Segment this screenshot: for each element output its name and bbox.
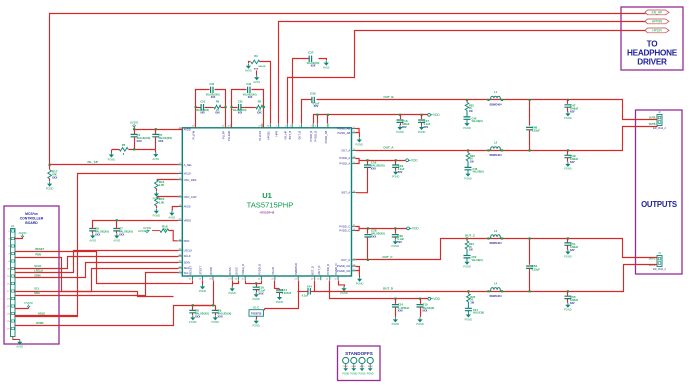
node C19 top: [395, 159, 397, 161]
wire PVDD_AB rail: [314, 115, 428, 124]
svg-text:BST_B: BST_B: [288, 131, 292, 140]
resistor R25 snubber: [467, 291, 469, 294]
svg-text:XXX: XXX: [371, 235, 376, 239]
pin 29 STEST (bottom): [202, 276, 204, 280]
svg-text:PGND: PGND: [416, 322, 424, 326]
pin 2 VR_HP (top): [286, 124, 288, 128]
node A_SEL: [49, 164, 51, 166]
connector J2 top outputs: [653, 110, 666, 130]
svg-text:PWRPAD: PWRPAD: [294, 263, 298, 275]
wire PGND_CD pins to ground: [356, 267, 360, 278]
svg-text:50V: 50V: [397, 240, 402, 244]
ground R17: [46, 181, 54, 190]
thermal pad U1C: [265, 281, 299, 311]
pin 20 PGND_CD (right): [352, 265, 356, 267]
svg-text:AVSS: AVSS: [89, 238, 96, 242]
svg-text:OUT_D: OUT_D: [317, 266, 321, 275]
ground C10: [252, 292, 260, 301]
wire HPSEL pullup: [260, 62, 271, 124]
svg-text:C32: C32: [246, 82, 251, 86]
MCU controller board block: [4, 206, 59, 344]
svg-text:VDD: VDD: [433, 113, 440, 117]
resistor R24 snubber: [466, 239, 468, 242]
capacitor C17 bulk: [421, 115, 423, 120]
svg-text:AVSS: AVSS: [16, 345, 23, 349]
svg-text:PGND: PGND: [199, 289, 207, 293]
MCU header connector J1: [11, 229, 16, 337]
wire AVDD filter bottom: [112, 150, 156, 153]
ground MCU: [16, 340, 23, 349]
svg-text:HPRIN: HPRIN: [652, 20, 663, 24]
pin 19 OUT_C (right): [352, 259, 356, 261]
ground R15: [153, 209, 161, 218]
pin 32 SDA (left): [178, 267, 182, 269]
svg-text:DVSS: DVSS: [234, 267, 238, 275]
wire U1C gnd: [256, 317, 258, 319]
svg-text:VALUE: VALUE: [258, 65, 266, 68]
pin 50 OUT_D (bottom): [320, 276, 322, 280]
ground C17: [418, 125, 426, 134]
svg-text:RESET: RESET: [35, 247, 44, 251]
wire HDLE: [15, 315, 78, 317]
pin 36 PDN (left): [178, 240, 182, 242]
capacitor C9: [215, 306, 217, 311]
ground snubber R25: [465, 312, 473, 321]
ground AVSS pin: [169, 211, 176, 220]
pin 22 PWRPAD (bottom): [297, 276, 299, 280]
svg-text:OSC_RES: OSC_RES: [184, 178, 197, 182]
svg-text:XXX: XXX: [371, 167, 376, 171]
svg-text:PGND: PGND: [189, 320, 197, 324]
node L4 left: [487, 290, 489, 292]
wire DVDD long: [15, 306, 216, 326]
node snubber: [467, 149, 469, 151]
wire AVDD rail left: [135, 127, 183, 129]
svg-text:PGND_CD: PGND_CD: [337, 264, 350, 268]
wire FIL_AP / A_SEL: [50, 164, 179, 166]
svg-text:XXX: XXX: [95, 233, 100, 237]
capacitor C29 decoupling: [395, 229, 397, 234]
wire PVDD feed: [330, 281, 428, 299]
svg-text:PLLFP: PLLFP: [222, 131, 226, 139]
node L1 left: [487, 99, 489, 101]
pin 3 BST_B (top): [291, 124, 293, 128]
svg-text:63V: 63V: [570, 248, 575, 252]
standoff MH3: [359, 357, 365, 363]
svg-text:PGND: PGND: [564, 308, 572, 312]
resistor R22 snubber: [466, 100, 468, 103]
resistor R8: [256, 105, 263, 109]
ground PGND_AB: [356, 137, 364, 146]
svg-text:47K: 47K: [162, 228, 167, 232]
svg-text:PDN: PDN: [35, 253, 41, 257]
pin 40 OSC_RES (left): [178, 179, 182, 181]
svg-text:HPLIN: HPLIN: [652, 29, 662, 33]
svg-text:RESET: RESET: [188, 265, 192, 274]
svg-text:SDWG404: SDWG404: [490, 154, 503, 157]
node L3 left: [487, 237, 489, 239]
svg-text:XXX: XXX: [200, 113, 205, 115]
svg-text:PVDD_D: PVDD_D: [257, 264, 261, 275]
resistor R15: [157, 196, 179, 198]
svg-text:0.1uF: 0.1uF: [302, 295, 309, 298]
svg-text:OUTPUTS: OUTPUTS: [641, 200, 677, 209]
resistor R23 snubber: [467, 150, 469, 153]
ground C11: [276, 295, 284, 304]
svg-text:OUT_A: OUT_A: [383, 146, 394, 150]
svg-text:MCLK: MCLK: [184, 172, 192, 176]
pin 46 PLLFM2 (top): [230, 124, 232, 128]
svg-text:AVDD: AVDD: [18, 231, 27, 235]
wire PDN net: [15, 258, 174, 297]
svg-text:XXX: XXX: [137, 139, 142, 143]
svg-text:63V: 63V: [570, 110, 575, 114]
svg-text:ED_1614_2: ED_1614_2: [653, 127, 666, 130]
svg-text:U1 C: U1 C: [253, 305, 259, 309]
svg-text:LRCLK: LRCLK: [34, 268, 43, 272]
svg-text:PGND: PGND: [418, 130, 426, 134]
pin 11 PGND_AB (right): [352, 128, 356, 130]
net flag HPLIN: [645, 28, 669, 33]
pin 4 OUT_B (top): [300, 124, 302, 128]
wire PGND_AB pins to ground: [356, 129, 360, 138]
node snubber: [466, 237, 468, 239]
node PLL mid left: [195, 106, 197, 108]
capacitor C47 to ground on row1: [567, 99, 569, 101]
ground snubber R23: [464, 171, 472, 180]
svg-text:XXX: XXX: [52, 176, 57, 180]
pin 37 VREG (left): [178, 219, 182, 221]
pin 12 PGND_AB (right): [352, 132, 356, 134]
ground cluster: [253, 75, 260, 84]
pin 48 HPSEL (top): [269, 124, 271, 128]
svg-text:PVDD_A: PVDD_A: [339, 156, 350, 160]
svg-text:PGND: PGND: [392, 175, 400, 179]
wire PVDD_C rail: [356, 227, 407, 231]
wire SCL: [15, 269, 179, 292]
svg-text:HTSSOP-48: HTSSOP-48: [260, 211, 275, 215]
svg-text:TO: TO: [647, 40, 659, 49]
wire PGND_D pin: [339, 281, 345, 287]
svg-text:C33: C33: [238, 100, 243, 104]
ground U1C: [252, 319, 260, 328]
wire OUT_C row: [356, 239, 658, 260]
svg-text:DVDD: DVDD: [36, 321, 43, 325]
power AVDD flag + resistor R16 to PDN: [143, 226, 152, 232]
svg-text:DVDD: DVDD: [209, 267, 213, 275]
capacitor C44 (series bst): [308, 288, 310, 294]
svg-text:AVSS: AVSS: [323, 65, 330, 69]
node C28 top: [367, 227, 369, 229]
svg-text:PGND: PGND: [392, 244, 400, 248]
ground at MCU connector bottom: [13, 337, 20, 340]
svg-text:50V: 50V: [314, 104, 319, 108]
pin 39 OSC_CAP (left): [178, 196, 182, 198]
svg-text:PGND: PGND: [350, 373, 357, 376]
svg-text:AVSS: AVSS: [245, 69, 252, 73]
svg-text:SCLK: SCLK: [184, 254, 191, 258]
ground C6: [89, 233, 96, 242]
wire MCLK route: [15, 174, 179, 317]
capacitor C48 between row1/row2: [529, 100, 531, 126]
wire SDIN: [15, 263, 179, 278]
svg-text:AVDD: AVDD: [184, 127, 191, 131]
pin 14 PVDD_A (right): [352, 157, 356, 159]
pin 27 DVSS (bottom): [231, 276, 233, 280]
capacitor C14 bulk: [395, 299, 397, 304]
node snubber: [466, 99, 468, 101]
node snubber: [467, 290, 469, 292]
svg-text:PGND: PGND: [356, 282, 364, 286]
svg-text:63V: 63V: [570, 301, 575, 305]
svg-text:XXX: XXX: [398, 309, 403, 313]
capacitor C30 series: [211, 87, 213, 93]
svg-text:AVSS: AVSS: [184, 205, 191, 209]
wire PVDD_A rail: [356, 159, 406, 165]
svg-text:VR_HP: VR_HP: [283, 131, 287, 140]
svg-text:VREG: VREG: [184, 218, 192, 222]
svg-text:DVSS: DVSS: [228, 267, 232, 275]
pin 43 AVDD (left): [178, 128, 182, 130]
svg-text:XXX: XXX: [215, 113, 220, 115]
ground C51: [564, 249, 572, 258]
wire PLL filter loop C32: [232, 90, 264, 128]
svg-text:SCL: SCL: [34, 287, 40, 291]
ground R14: [153, 191, 161, 200]
svg-text:PVDD_C: PVDD_C: [339, 229, 350, 233]
svg-text:VALID: VALID: [271, 267, 275, 275]
wire OUT_A row: [356, 127, 658, 151]
svg-text:OSC_CAP: OSC_CAP: [184, 195, 197, 199]
wire VALID cap: [275, 281, 280, 290]
svg-text:HPR: HPR: [275, 131, 279, 137]
svg-text:XXX: XXX: [119, 233, 124, 237]
ground DVSS: [228, 286, 236, 295]
resistor R6: [214, 105, 221, 109]
capacitor C30 (series): [312, 97, 314, 103]
node C18 top: [366, 159, 368, 161]
pin 42 A_SEL (left): [178, 164, 182, 166]
svg-text:PLLFP2: PLLFP2: [258, 130, 262, 140]
net flag HPRIN: [645, 19, 669, 24]
wire VR_HP cap: [293, 59, 327, 124]
svg-text:PGND: PGND: [463, 126, 471, 130]
svg-text:XXX: XXX: [218, 315, 223, 319]
node PLL mid left: [230, 106, 232, 108]
svg-text:OUT_C: OUT_C: [341, 258, 350, 262]
svg-text:OUTB: OUTB: [649, 123, 656, 126]
svg-text:BST_D: BST_D: [311, 266, 315, 275]
svg-text:AVSS: AVSS: [253, 80, 260, 84]
pin 28 DVDD (bottom): [212, 276, 214, 280]
svg-text:VALUE(X): VALUE(X): [472, 259, 483, 262]
node C8 top: [192, 304, 194, 306]
capacitor C33: [239, 104, 241, 110]
node L2 left: [487, 149, 489, 151]
svg-text:PLLFM2: PLLFM2: [227, 130, 231, 141]
inductor L1: [491, 96, 501, 100]
svg-text:XXX: XXX: [311, 65, 316, 68]
wire VREG_D caps: [246, 281, 262, 284]
TO HEADPHONE DRIVER block: [621, 7, 683, 70]
wire AVSS pin to ground: [172, 207, 178, 211]
pin 15 PVDD_A (right): [352, 163, 356, 165]
pin 17 PVDD_C (right): [352, 225, 356, 227]
wire VREG caps: [93, 221, 179, 227]
svg-text:DRIVER: DRIVER: [637, 58, 667, 67]
pin 26 DVSS (bottom): [237, 276, 239, 280]
svg-text:FIL_AP: FIL_AP: [88, 160, 98, 164]
svg-text:0.047uF: 0.047uF: [282, 291, 292, 295]
svg-text:50V: 50V: [424, 125, 429, 129]
capacitor C31: [201, 104, 203, 110]
svg-text:XXX: XXX: [238, 113, 243, 115]
svg-text:PGND: PGND: [465, 317, 473, 321]
ground AVDD filter: [108, 152, 116, 161]
inductor L2: [491, 147, 501, 151]
svg-text:PVDD_D: PVDD_D: [326, 264, 330, 275]
svg-text:SDWG404: SDWG404: [490, 242, 503, 245]
resistor R5: [119, 148, 128, 152]
svg-text:PGND: PGND: [396, 130, 404, 134]
ground C29: [392, 239, 400, 248]
svg-text:C30: C30: [310, 92, 316, 96]
capacitor C4: [134, 130, 136, 135]
svg-text:C37: C37: [308, 50, 314, 54]
capacitor C8: [192, 306, 194, 311]
svg-text:R6: R6: [216, 100, 220, 104]
power AVDD arrow: [130, 121, 139, 127]
ground PGND_CD: [356, 277, 364, 286]
pin 24 PVDD_D (bottom): [260, 276, 262, 280]
wire HPRIN run: [279, 22, 646, 124]
wire BST_A pin to C18: [355, 192, 357, 194]
pin 13 OUT_A (right): [352, 149, 356, 151]
node diff cap3 bottom: [529, 290, 531, 292]
svg-text:XXX: XXX: [254, 68, 259, 70]
wire SDA: [15, 273, 179, 296]
node C14 top: [394, 298, 396, 300]
svg-text:PGND: PGND: [564, 254, 572, 258]
capacitor C19 decoupling: [395, 161, 397, 165]
pin 7 PVDD_AB (top): [327, 124, 329, 128]
svg-text:PGND_CD: PGND_CD: [337, 269, 350, 273]
svg-text:PGND: PGND: [153, 214, 161, 218]
capacitor C16 bulk: [400, 115, 402, 120]
svg-text:PGND: PGND: [564, 116, 572, 120]
svg-text:PVDD_B: PVDD_B: [313, 131, 317, 142]
svg-text:XXX: XXX: [258, 291, 263, 295]
pin 38 AVSS (left): [178, 206, 182, 208]
svg-text:TAS5715PHP: TAS5715PHP: [247, 201, 294, 210]
ground AVSS mid: [256, 71, 258, 76]
svg-text:PGND: PGND: [46, 186, 54, 190]
svg-text:SCLK: SCLK: [34, 264, 41, 268]
svg-text:OUT_B: OUT_B: [297, 131, 301, 140]
svg-text:C31: C31: [200, 100, 205, 104]
STANDOFFS block: [338, 346, 381, 381]
node VREG: [116, 219, 118, 221]
capacitor C28 bootstrap: [367, 229, 369, 234]
capacitor C45 snubber: [464, 117, 471, 119]
svg-text:0.22uF: 0.22uF: [532, 267, 541, 271]
svg-text:VREG_D: VREG_D: [241, 264, 245, 275]
svg-text:R8: R8: [258, 100, 262, 104]
ground C37: [323, 60, 330, 69]
pin 47 PLLFP2 (top): [261, 124, 263, 128]
power flag PVDD_AB: [428, 113, 441, 117]
svg-text:PGND: PGND: [340, 291, 348, 295]
svg-text:OUT_B: OUT_B: [383, 95, 394, 99]
pin 49 BST_D (bottom): [314, 276, 316, 280]
wire OUT_B row: [302, 100, 312, 124]
ground C9: [212, 315, 220, 324]
svg-text:BOARD: BOARD: [25, 221, 38, 225]
pin 35 LRCLK (left): [178, 249, 182, 251]
svg-text:XXX: XXX: [257, 113, 262, 115]
svg-text:HEADPHONE: HEADPHONE: [627, 49, 678, 58]
connector J3 bottom outputs: [653, 251, 666, 271]
svg-text:OUT_D: OUT_D: [383, 287, 394, 291]
inductor L3: [491, 235, 501, 239]
svg-text:XXX: XXX: [248, 97, 253, 99]
svg-text:AVDD: AVDD: [130, 121, 139, 125]
svg-text:XXX: XXX: [195, 315, 200, 319]
ground snubber R24: [463, 260, 471, 269]
ground C47: [564, 111, 572, 120]
pin 5 PVDD_B (top): [312, 124, 314, 128]
svg-text:VALUE(X): VALUE(X): [472, 120, 483, 123]
ground snubber R22: [463, 121, 471, 130]
svg-text:PGND_AB: PGND_AB: [337, 127, 350, 131]
svg-text:HDLE: HDLE: [38, 311, 45, 315]
wire DVDD pin down: [193, 281, 213, 306]
svg-text:50V: 50V: [398, 170, 403, 174]
svg-text:SDIN: SDIN: [34, 273, 40, 277]
svg-text:1.5K: 1.5K: [159, 183, 165, 187]
svg-text:PGND: PGND: [564, 167, 572, 171]
svg-text:CONTROLLER: CONTROLLER: [20, 217, 44, 221]
power flag PVDD bottom: [428, 297, 441, 301]
pin 30 RESET (bottom): [191, 276, 193, 280]
pin 6 PVDD_B (top): [316, 124, 318, 128]
wire STEST to ground: [202, 281, 204, 285]
svg-text:LRCLK: LRCLK: [184, 248, 193, 252]
node diff cap top: [529, 99, 531, 101]
ground C49: [564, 162, 572, 171]
pin 18 PVDD_C (right): [352, 230, 356, 232]
capacitor C55 to ground on row4: [567, 290, 569, 292]
svg-text:AVSS: AVSS: [169, 216, 176, 220]
svg-text:VALUE(X): VALUE(X): [473, 312, 484, 315]
capacitor C46 snubber: [465, 167, 472, 169]
svg-text:PGND: PGND: [228, 291, 236, 295]
svg-text:PVDD: PVDD: [24, 301, 33, 305]
svg-text:AVSS: AVSS: [152, 157, 159, 161]
svg-text:EN_HP: EN_HP: [652, 11, 663, 15]
standoff MH2: [351, 357, 357, 363]
capacitor C18 bootstrap: [367, 161, 369, 165]
svg-text:VDD: VDD: [433, 297, 440, 301]
svg-text:PGND: PGND: [212, 320, 220, 324]
net flag EN_HP: [645, 10, 669, 15]
op IC U1 TAS5715PHP body: [182, 128, 351, 276]
node C15 top: [419, 298, 421, 300]
wire LRCLK: [15, 251, 179, 273]
pin 1 HPR (top): [278, 124, 280, 128]
node diff cap3 top: [529, 237, 531, 239]
ground C16: [396, 125, 404, 134]
